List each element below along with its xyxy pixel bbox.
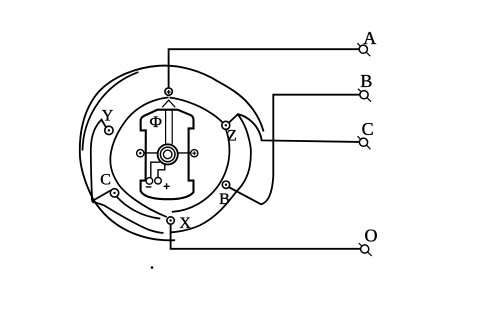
svg-text:O: O — [365, 226, 378, 246]
svg-text:C: C — [100, 171, 111, 188]
svg-text:A: A — [363, 28, 376, 48]
svg-text:B: B — [219, 191, 230, 208]
svg-text:Y: Y — [102, 107, 114, 124]
svg-text:Ф: Ф — [149, 114, 162, 131]
svg-text:Z: Z — [227, 127, 237, 144]
svg-text:X: X — [179, 215, 191, 232]
svg-text:C: C — [362, 119, 374, 139]
svg-text:B: B — [360, 71, 372, 91]
